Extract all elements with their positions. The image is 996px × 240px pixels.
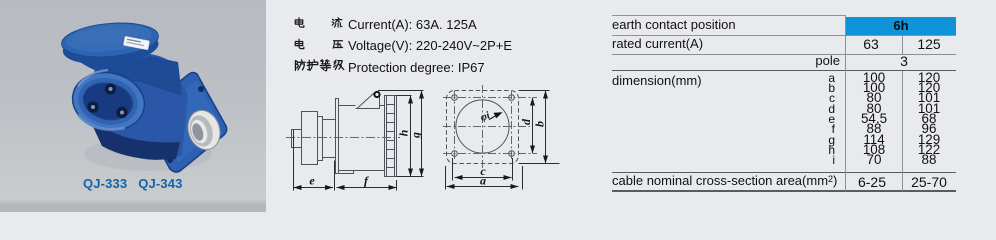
side view step ring (318, 117, 323, 161)
svg-text:f: f (364, 174, 369, 188)
side view cable stub (292, 130, 302, 148)
spec line 2 latin (348, 38, 512, 53)
vertical dividers (845, 15, 846, 191)
arrows d (530, 98, 535, 106)
arrows g (419, 91, 424, 99)
d dim (532, 98, 534, 154)
gland metallic ring (183, 106, 225, 154)
soft shadow blob (84, 137, 212, 171)
svg-text:φi: φi (479, 110, 492, 124)
photo panel background (0, 0, 266, 212)
pin holes (105, 84, 116, 95)
witness lines side view (293, 130, 295, 191)
witness lines front view (519, 90, 550, 92)
c dim (455, 177, 512, 179)
h dim line (410, 96, 412, 177)
arrows h (408, 96, 413, 104)
collar ribs (387, 105, 395, 168)
side view front flange lip (336, 99, 339, 174)
table lines (612, 15, 846, 16)
压 (line2) (333, 41, 342, 49)
hinge circle (374, 92, 379, 97)
side view collar outer (385, 96, 397, 177)
front view corner holes (452, 95, 515, 157)
dimension value rows col1 (846, 73, 902, 166)
face highlight (78, 70, 108, 86)
phi-i leader arrow (479, 110, 503, 124)
side view neck (323, 120, 336, 158)
防 (line3) (295, 60, 305, 71)
model caption QJ-333 QJ-343 (83, 176, 183, 191)
e dim line (294, 187, 334, 189)
g dim line (421, 91, 423, 177)
arrows e (294, 185, 302, 190)
hinge / lid underside dark (74, 48, 182, 96)
blue header cell (846, 17, 956, 35)
流 (line1) (332, 18, 342, 27)
arrows b (543, 91, 548, 99)
级 (line3) (334, 60, 344, 69)
svg-text:g: g (409, 132, 423, 139)
b dim (545, 91, 547, 164)
dark navy under-body band (88, 116, 180, 159)
lid (cap) (60, 19, 160, 68)
dimension value rows col2 (902, 73, 956, 166)
side view gland nut (302, 112, 318, 165)
svg-text:e: e (309, 174, 315, 188)
svg-text:a: a (480, 174, 486, 188)
dimension letter rows (740, 73, 835, 166)
电 (line1) (295, 18, 304, 27)
spec line 3 latin (348, 60, 485, 75)
护 (line3) (307, 60, 318, 71)
body mass between face and flange (90, 53, 188, 160)
lid flap (356, 93, 380, 109)
socket face (67, 66, 150, 137)
centerlines front view (443, 85, 537, 170)
table values (843, 36, 899, 52)
front view big circle (456, 100, 509, 153)
arrows c (455, 175, 463, 180)
spec line 1 latin (348, 17, 477, 32)
f dim line (337, 187, 397, 189)
side view main body (339, 106, 385, 171)
side view body bottom lip (339, 171, 354, 174)
table row labels (612, 17, 736, 32)
电 (line2) (295, 39, 304, 48)
a dim (447, 186, 519, 188)
product photo (blue industrial socket) (0, 0, 266, 212)
white label on lid rim (123, 36, 149, 50)
arrows a (447, 184, 455, 189)
svg-text:d: d (519, 118, 533, 125)
arrows f (337, 185, 345, 190)
svg-text:b: b (533, 121, 547, 127)
CJK glyphs (hand drawn) (283, 8, 583, 78)
flange plate (141, 73, 226, 173)
等 (line3) (320, 60, 331, 71)
front view square flange (dashed) (447, 91, 519, 164)
centerline side view (286, 137, 400, 139)
